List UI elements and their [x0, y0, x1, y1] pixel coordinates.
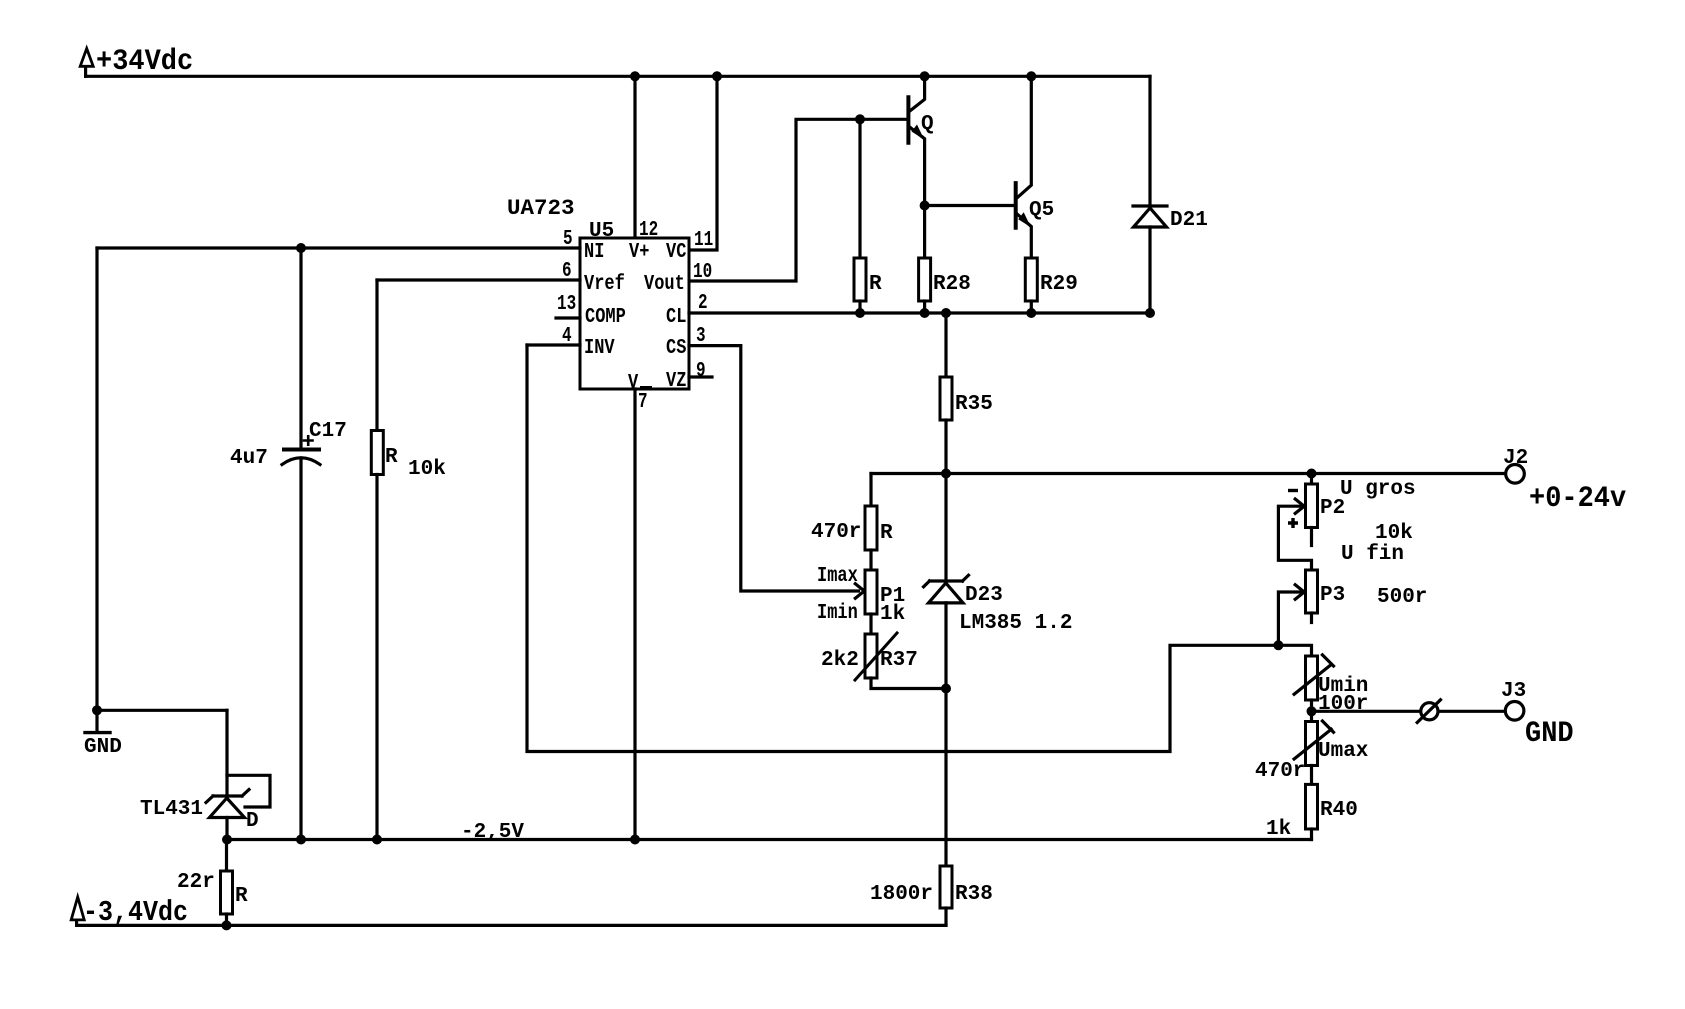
svg-text:Vout: Vout — [644, 271, 685, 295]
svg-text:22r: 22r — [177, 871, 215, 894]
resistor R (Q base, upper) — [854, 119, 866, 313]
wire VZ pin9 stub — [689, 375, 712, 378]
label minus P2 — [1288, 489, 1298, 492]
svg-text:Vref: Vref — [584, 271, 625, 295]
resistor R28 — [919, 258, 931, 313]
svg-text:4: 4 — [562, 324, 572, 348]
svg-text:9: 9 — [696, 359, 706, 383]
transistor TL431 shunt reference — [206, 710, 270, 839]
svg-text:VZ: VZ — [666, 368, 686, 392]
resistor R35 — [940, 313, 952, 474]
wire mid rail to J2 — [871, 472, 1504, 475]
svg-text:100r: 100r — [1318, 693, 1368, 716]
svg-text:10k: 10k — [1375, 522, 1413, 545]
svg-text:1k: 1k — [880, 603, 905, 626]
svg-text:INV: INV — [584, 335, 615, 359]
wire CS pin3 to P1 wiper — [689, 346, 864, 599]
wire J3 ground lead — [1312, 710, 1504, 713]
node +34Vdc power arrow — [80, 49, 93, 77]
trimmer Umin 100r — [1294, 655, 1333, 711]
svg-text:V: V — [628, 370, 639, 394]
svg-text:11: 11 — [694, 228, 713, 252]
svg-text:470r: 470r — [811, 521, 861, 544]
wire VC pin11 to rail — [689, 76, 717, 250]
label plus P2 — [1288, 518, 1298, 528]
wire P3 wiper loop — [1278, 585, 1304, 646]
svg-text:1k: 1k — [1266, 818, 1291, 841]
wire Vref pin6 — [377, 278, 580, 281]
svg-text:TL431: TL431 — [140, 798, 203, 821]
svg-text:Umax: Umax — [1318, 740, 1369, 763]
svg-text:R28: R28 — [933, 273, 971, 296]
svg-text:5: 5 — [563, 227, 573, 251]
svg-text:P3: P3 — [1320, 584, 1345, 607]
svg-text:500r: 500r — [1377, 586, 1427, 609]
svg-text:GND: GND — [1525, 716, 1574, 751]
svg-text:GND: GND — [84, 736, 122, 759]
svg-text:D23: D23 — [965, 584, 1003, 607]
svg-text:D21: D21 — [1170, 209, 1208, 232]
svg-text:COMP: COMP — [585, 304, 626, 328]
svg-text:-3,4Vdc: -3,4Vdc — [83, 898, 188, 930]
svg-text:2: 2 — [698, 291, 708, 315]
wire NI pin5 — [97, 246, 580, 249]
wire Vout pin10 to Q base — [689, 119, 907, 281]
wire INV feedback loop — [527, 345, 1278, 752]
svg-text:10k: 10k — [408, 458, 446, 481]
svg-text:U fin: U fin — [1341, 543, 1404, 566]
connector J2 — [1506, 465, 1525, 484]
svg-text:R29: R29 — [1040, 273, 1078, 296]
svg-text:R35: R35 — [955, 393, 993, 416]
svg-text:Imin: Imin — [817, 600, 858, 624]
wire -2,5V rail — [227, 838, 1312, 841]
resistor R 470r — [865, 474, 877, 571]
svg-text:VC: VC — [666, 239, 686, 263]
svg-text:CL: CL — [666, 304, 686, 328]
wire INV pin4 — [527, 343, 580, 346]
wire junction to Vmin — [1278, 645, 1311, 656]
capacitor C17 4u7 — [282, 248, 320, 840]
svg-text:4u7: 4u7 — [230, 447, 268, 470]
trimmer Umax 470r — [1294, 711, 1333, 784]
svg-text:R: R — [869, 273, 882, 296]
svg-text:R: R — [235, 885, 248, 908]
wire P2 wiper loop — [1278, 499, 1311, 570]
svg-text:2k2: 2k2 — [821, 649, 859, 672]
svg-text:U gros: U gros — [1340, 478, 1416, 501]
svg-text:R: R — [385, 446, 398, 469]
resistor R40 1k — [1306, 784, 1318, 839]
svg-text:D: D — [246, 810, 259, 833]
resistor R38 1800r — [940, 866, 952, 925]
diode D23 LM385 — [924, 474, 969, 867]
ground GND symbol — [85, 710, 110, 732]
svg-text:-2,5V: -2,5V — [461, 821, 524, 844]
connector J3 — [1505, 702, 1524, 721]
svg-text:V+: V+ — [629, 239, 649, 263]
svg-text:C17: C17 — [309, 420, 347, 443]
transistor Q — [908, 76, 924, 258]
svg-text:CS: CS — [666, 335, 686, 359]
svg-text:7: 7 — [638, 390, 648, 414]
svg-text:Q5: Q5 — [1029, 199, 1054, 222]
resistor R29 — [1025, 258, 1037, 313]
svg-text:NI: NI — [584, 239, 604, 263]
resistor R 22r — [221, 840, 233, 926]
svg-text:3: 3 — [696, 324, 706, 348]
resistor R37 2k2 — [855, 614, 946, 689]
wire V- pin7 to -2,5V rail — [633, 389, 636, 840]
wire CL pin2 rail — [689, 311, 1150, 314]
svg-text:6: 6 — [562, 259, 572, 283]
wire COMP pin13 stub — [556, 316, 580, 319]
svg-text:LM385 1.2: LM385 1.2 — [959, 612, 1072, 635]
svg-text:Imax: Imax — [817, 563, 858, 587]
wire Q emitter to Q5 base — [925, 204, 1014, 207]
svg-text:R37: R37 — [880, 649, 918, 672]
svg-text:UA723: UA723 — [507, 195, 575, 221]
node -3,4Vdc power arrow — [71, 897, 84, 925]
svg-text:10: 10 — [693, 260, 712, 284]
resistor R 10k — [371, 280, 383, 840]
svg-text:P2: P2 — [1320, 497, 1345, 520]
svg-text:12: 12 — [639, 218, 658, 242]
potentiometer P3 500r — [1306, 570, 1318, 623]
potentiometer P1 1k — [865, 570, 877, 614]
svg-text:J3: J3 — [1501, 680, 1526, 703]
svg-text:R38: R38 — [955, 883, 993, 906]
svg-text:R40: R40 — [1320, 799, 1358, 822]
potentiometer P2 10k — [1306, 474, 1318, 546]
transistor Q5 — [1016, 76, 1032, 258]
wire +34Vdc top rail — [86, 75, 1150, 78]
wire GND net left vertical — [95, 248, 98, 710]
diode D21 — [1133, 76, 1167, 313]
svg-text:J2: J2 — [1503, 447, 1528, 470]
svg-text:1800r: 1800r — [870, 883, 933, 906]
wire V+ pin12 to rail — [633, 76, 636, 238]
wire GND to TL431 — [97, 709, 227, 712]
op-amp U5 UA723 box — [580, 238, 689, 389]
node phi symbol — [1417, 700, 1440, 723]
svg-text:13: 13 — [557, 292, 576, 316]
svg-text:+34Vdc: +34Vdc — [96, 44, 193, 79]
junction dots — [630, 71, 640, 81]
svg-text:+0-24v: +0-24v — [1529, 481, 1626, 516]
svg-text:R: R — [880, 522, 893, 545]
wire -3,4Vdc bottom rail — [77, 924, 946, 927]
svg-text:Q: Q — [921, 113, 934, 136]
svg-text:470r: 470r — [1255, 760, 1305, 783]
